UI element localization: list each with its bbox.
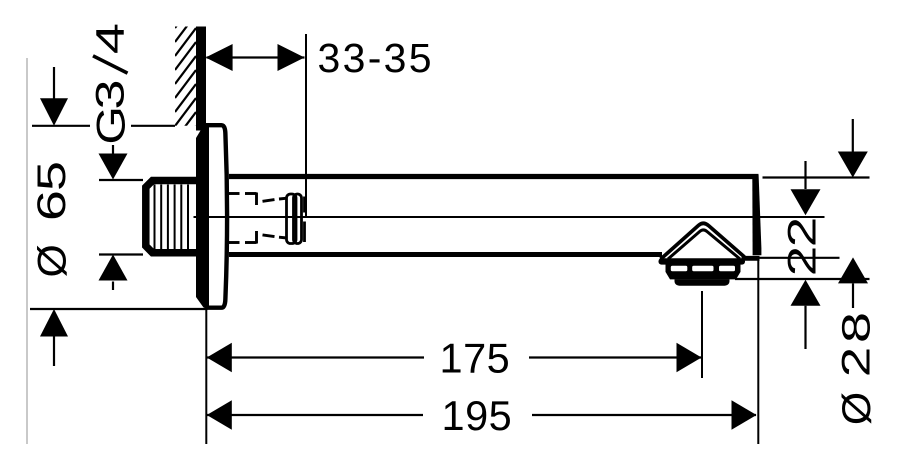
- arrow left 33-35: [206, 44, 233, 71]
- spout right end edge: [752, 175, 761, 255]
- extension line 195 right: [757, 258, 759, 444]
- label dia 65: [30, 161, 75, 277]
- label 22: [780, 217, 824, 276]
- svg-text:5: 5: [30, 161, 75, 191]
- svg-text:33-35: 33-35: [318, 35, 434, 81]
- svg-text:3: 3: [88, 79, 133, 109]
- dim22 bottom arrow: [791, 280, 821, 306]
- aerator outlet ring: [675, 279, 730, 286]
- flange bottom reference line: [30, 308, 208, 310]
- dimension line 175: [207, 356, 424, 358]
- svg-text:Ø: Ø: [30, 244, 74, 277]
- dia65 bottom arrow: [40, 309, 68, 337]
- spout top reference line right: [763, 176, 870, 178]
- svg-text:2: 2: [780, 217, 824, 247]
- dia65 top arrow: [53, 67, 55, 99]
- aerator cone outer: [661, 223, 745, 259]
- wall hatch: [175, 0, 196, 154]
- svg-text:195: 195: [442, 392, 513, 439]
- svg-text:6: 6: [30, 190, 74, 221]
- arrow left 175: [207, 343, 232, 373]
- arrow right 195: [732, 400, 757, 430]
- slash of G3/4: [93, 56, 128, 73]
- arrow right 175: [677, 343, 702, 373]
- aerator face reference line right: [735, 278, 870, 280]
- aerator cone inner: [668, 230, 740, 259]
- aerator base bar: [659, 258, 746, 264]
- aerator slot band: [666, 264, 741, 272]
- spout bottom reference line right: [760, 257, 840, 259]
- aerator middle band: [666, 272, 741, 280]
- svg-text:G: G: [88, 106, 133, 145]
- svg-text:Ø: Ø: [834, 392, 878, 425]
- wall surface line: [196, 27, 206, 131]
- G3/4 top arrow: [112, 145, 114, 155]
- spout top edge: [229, 174, 759, 179]
- dimension line 195: [207, 414, 423, 416]
- svg-text:175: 175: [440, 335, 511, 382]
- label G3/4: [88, 23, 133, 145]
- svg-text:4: 4: [88, 23, 132, 54]
- flange back slab: [196, 126, 209, 308]
- extension line 33-35: [305, 34, 307, 216]
- hidden connector dashes bottom: [227, 241, 240, 244]
- dia28 top arrow: [852, 119, 854, 152]
- dia28 bottom arrow: [838, 257, 868, 283]
- centerline axis: [194, 216, 825, 218]
- arrow right 33-35: [278, 44, 305, 71]
- hidden connector dashes top: [227, 193, 287, 244]
- thread bottom reference line: [99, 253, 143, 255]
- label dia 28: [834, 312, 878, 425]
- svg-text:2: 2: [834, 347, 878, 377]
- extension line left common: [205, 309, 207, 444]
- hidden cartridge: [287, 194, 305, 244]
- dim22 top arrow: [804, 161, 806, 189]
- G3/4 bottom arrow: [99, 255, 128, 281]
- thread turns: [155, 185, 189, 250]
- arrow left 195: [207, 400, 232, 430]
- extension line 175 right: [701, 291, 703, 378]
- dimension line 33-35: [207, 56, 305, 58]
- spout bottom edge: [229, 252, 662, 257]
- thread G3/4 body: [146, 181, 196, 253]
- svg-text:2: 2: [780, 246, 824, 276]
- flange top reference line: [32, 125, 90, 127]
- left faint border line: [26, 58, 28, 444]
- flange front face: [207, 125, 228, 308]
- spout bottom right stub: [742, 256, 760, 261]
- svg-text:8: 8: [834, 312, 878, 343]
- thread top reference line: [99, 179, 143, 181]
